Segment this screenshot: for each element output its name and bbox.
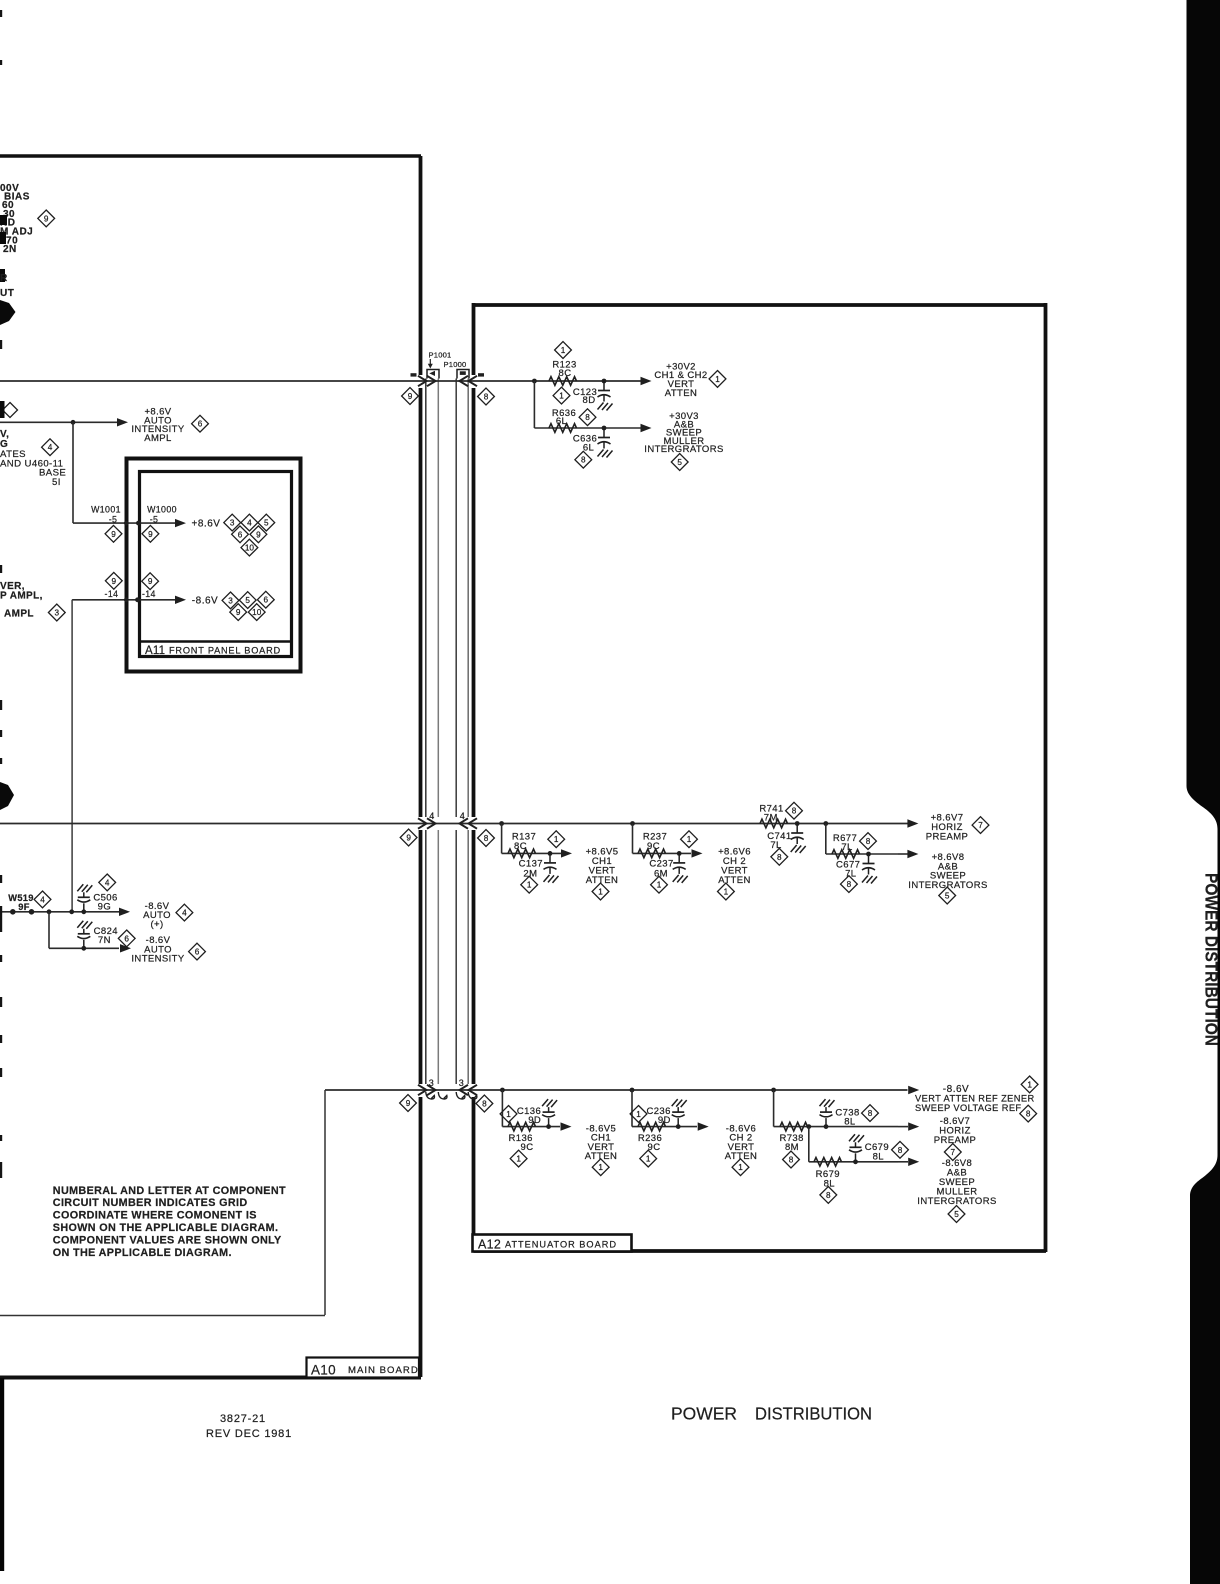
grid ref diamond 1 below C137	[521, 876, 538, 893]
svg-text:INTERGRATORS: INTERGRATORS	[644, 444, 723, 455]
capacitor C123 with ground	[603, 381, 605, 391]
grid ref diamond 9 below W1000	[142, 525, 159, 542]
grid ref diamond 1 below bottom CH1 vert atten	[592, 1159, 609, 1176]
grid ref diamond 8 right of R636 label	[579, 409, 596, 426]
arrow to -8.6V vert atten ref zener	[908, 1086, 919, 1094]
svg-text:1: 1	[687, 835, 692, 844]
svg-text:1: 1	[646, 1155, 651, 1164]
svg-text:8C: 8C	[514, 841, 527, 852]
svg-text:8: 8	[581, 456, 586, 465]
svg-text:1: 1	[506, 1110, 511, 1119]
svg-text:FRONT PANEL BOARD: FRONT PANEL BOARD	[169, 645, 281, 655]
svg-text:ATTEN: ATTEN	[665, 388, 697, 399]
junction W1001 at outer board edge	[124, 521, 129, 526]
grid ref diamond 8 right of R677	[860, 833, 877, 850]
wire branch to +8.6V6	[632, 824, 634, 854]
connector P1001 column lines	[425, 379, 427, 818]
junction C738 tap	[824, 1124, 829, 1129]
resistor R136	[508, 1122, 536, 1131]
grid ref diamond 1 below R136	[510, 1150, 527, 1167]
svg-text:4: 4	[40, 895, 45, 904]
resistor R237	[638, 849, 666, 858]
grid ref diamond 1 below bottom CH2 vert atten	[732, 1159, 749, 1176]
grid ref diamond 9 middle left	[400, 829, 417, 846]
svg-text:9: 9	[148, 530, 153, 539]
connector P1000 column lines	[455, 379, 457, 818]
capacitor C506 with ground above	[83, 903, 85, 912]
svg-text:1: 1	[1027, 1080, 1032, 1089]
grid ref diamond 8 below C636 label	[575, 451, 592, 468]
grid ref diamond 4 right of W519	[34, 891, 51, 908]
svg-text:8: 8	[585, 413, 590, 422]
resistor R677	[832, 850, 860, 859]
connector pins 4 at middle wire	[418, 818, 477, 828]
svg-text:9C: 9C	[521, 1142, 534, 1153]
svg-text:9C: 9C	[647, 841, 660, 852]
arrow to +8.6V front panel	[175, 519, 186, 527]
svg-text:1: 1	[559, 392, 564, 401]
A10 main board label box	[307, 1358, 420, 1378]
junction +8.6V5 branch	[499, 821, 504, 826]
svg-text:COORDINATE WHERE COMONENT IS: COORDINATE WHERE COMONENT IS	[53, 1210, 257, 1222]
grid ref diamond 1 below C237	[651, 876, 668, 893]
grid ref diamond 8 below R738	[783, 1151, 800, 1168]
grid ref diamond 6 right of auto intensity	[189, 943, 206, 960]
grid ref diamond 4 above C506	[99, 874, 116, 891]
connector keying marks top	[411, 373, 417, 376]
cut wire arrow blob left edge	[0, 300, 16, 325]
svg-text:SHOWN ON THE APPLICABLE DIAGRA: SHOWN ON THE APPLICABLE DIAGRAM.	[53, 1222, 279, 1234]
resistor R741 in main wire	[760, 819, 788, 828]
wire branch through R738	[773, 1090, 775, 1127]
A11 label separator line	[141, 640, 290, 642]
wire branch to -8.6V8	[808, 1127, 810, 1162]
svg-text:1: 1	[724, 887, 729, 896]
junction C824 tap	[81, 946, 86, 951]
grid ref diamond 9 bottom left	[400, 1095, 417, 1112]
svg-text:SWEEP VOLTAGE REF: SWEEP VOLTAGE REF	[915, 1103, 1022, 1113]
A10 main board outline right edge (with connector gaps)	[419, 156, 423, 375]
svg-text:1: 1	[738, 1163, 743, 1172]
junction C679 tap	[853, 1159, 858, 1164]
svg-text:8L: 8L	[844, 1117, 855, 1128]
A11 front panel board inner box	[140, 472, 292, 657]
arrow to -8.6V6 CH2 vert atten	[698, 1122, 709, 1130]
capacitor C636 with ground	[603, 428, 605, 438]
svg-text:6: 6	[264, 596, 269, 605]
junction R738 branch	[771, 1088, 776, 1093]
grid ref diamond 4 right of auto	[176, 904, 193, 921]
svg-text:ATTEN: ATTEN	[585, 1151, 617, 1162]
grid ref diamond 4 gates block	[42, 439, 59, 456]
svg-text:INTERGRATORS: INTERGRATORS	[908, 880, 987, 891]
svg-text:8: 8	[792, 807, 797, 816]
svg-text:MAIN BOARD: MAIN BOARD	[348, 1365, 419, 1376]
svg-text:9D: 9D	[658, 1115, 671, 1126]
svg-text:9: 9	[44, 214, 49, 223]
resistor R636	[549, 424, 577, 433]
svg-text:8: 8	[777, 853, 782, 862]
svg-text:8: 8	[847, 880, 852, 889]
grid ref diamond 9 top left	[402, 388, 419, 405]
wire branch to -8.6V5	[501, 1090, 503, 1127]
left edge blob near middle wire	[0, 782, 14, 810]
svg-text:7L: 7L	[841, 842, 852, 853]
svg-text:(+): (+)	[150, 919, 163, 930]
A12 attenuator board outline bottom edge	[474, 1249, 1047, 1253]
junction C136 tap	[546, 1124, 551, 1129]
grid ref diamond 1 above R123	[555, 342, 572, 359]
arrow to +8.6V auto intensity ampl	[117, 418, 128, 426]
svg-text:6: 6	[238, 530, 243, 539]
svg-text:1: 1	[561, 346, 566, 355]
arrow to +8.6V5 CH1 vert atten	[561, 849, 572, 857]
wire W1001/W1000 +8.6V into front panel board	[73, 522, 177, 524]
left edge bottom border bar	[0, 1378, 4, 1571]
junction C123 tap	[602, 379, 607, 384]
svg-text:-8.6V: -8.6V	[192, 595, 218, 606]
junction node top branch	[532, 379, 537, 384]
svg-text:8: 8	[826, 1191, 831, 1200]
grid ref diamond 6 right of C824	[118, 930, 135, 947]
junction dots on W519 wire	[10, 909, 16, 915]
wire -8.6V main distribution with note detour	[325, 1089, 908, 1091]
svg-text:1: 1	[657, 881, 662, 890]
svg-text:W1001: W1001	[91, 504, 121, 514]
svg-text:1: 1	[598, 1163, 603, 1172]
junction +8.6V6 branch	[630, 821, 635, 826]
grid ref diamond 8 right of C738	[862, 1105, 879, 1122]
svg-text:POWER: POWER	[671, 1404, 737, 1424]
svg-text:5: 5	[264, 519, 269, 528]
svg-text:6: 6	[195, 948, 200, 957]
svg-text:4: 4	[48, 443, 53, 452]
svg-text:ATTEN: ATTEN	[718, 875, 750, 886]
svg-text:5I: 5I	[52, 477, 61, 488]
grid ref diamond 8 right of sweep voltage ref	[1020, 1105, 1037, 1122]
svg-text:5: 5	[245, 596, 250, 605]
svg-text:4: 4	[460, 811, 465, 821]
capacitor C679 with ground above	[855, 1153, 857, 1162]
wire -14 -8.6V into front panel board	[72, 599, 177, 601]
svg-text:W1000: W1000	[147, 504, 177, 514]
svg-text:3: 3	[230, 519, 235, 528]
grid ref diamond 7 below bottom horiz preamp	[944, 1144, 961, 1161]
svg-text:CIRCUIT NUMBER INDICATES GRID: CIRCUIT NUMBER INDICATES GRID	[53, 1197, 248, 1209]
A12 attenuator board outline left edge (with connector gaps)	[472, 303, 476, 375]
svg-text:-5: -5	[109, 514, 118, 524]
svg-text:8: 8	[482, 1099, 487, 1108]
clipped grid diamond at left edge	[3, 403, 18, 418]
grid ref diamond 1 right of +30V2 text	[709, 371, 726, 388]
grid ref diamond 9 above -14 left	[105, 572, 122, 589]
svg-text:4: 4	[105, 878, 110, 887]
svg-text:5: 5	[677, 458, 682, 467]
grid ref diamond 7 right of horiz preamp	[972, 817, 989, 834]
grid ref diamond 8 top right	[478, 388, 495, 405]
svg-text:NUMBERAL AND LETTER AT COMPONE: NUMBERAL AND LETTER AT COMPONENT	[53, 1185, 286, 1197]
junction C137 tap	[548, 851, 553, 856]
grid ref diamond 8 below C677 label	[841, 876, 858, 893]
connector P1000 top bracket	[457, 370, 469, 379]
svg-text:9: 9	[408, 392, 413, 401]
svg-text:1: 1	[554, 835, 559, 844]
svg-text:7: 7	[978, 821, 983, 830]
A12 attenuator board outline top edge	[474, 303, 1047, 307]
svg-text:8: 8	[1026, 1110, 1031, 1119]
svg-text:PREAMP: PREAMP	[926, 832, 969, 843]
svg-text:ATTEN: ATTEN	[725, 1151, 757, 1162]
capacitor C137 with ground	[549, 853, 551, 863]
grid ref diamond 8 right of R741	[786, 802, 803, 819]
svg-text:1: 1	[715, 375, 720, 384]
svg-text:6: 6	[198, 420, 203, 429]
grid ref diamond 5 below +30V3 text	[671, 454, 688, 471]
grid ref diamond 1 below CH2 vert atten	[718, 883, 735, 900]
svg-text:9: 9	[112, 577, 117, 586]
svg-text:9F: 9F	[18, 902, 29, 912]
arrow to +30V2 CH1 CH2 VERT ATTEN	[641, 377, 652, 385]
grid ref diamond 8 middle right	[478, 830, 495, 847]
junction -14 at outer board edge	[124, 597, 129, 602]
svg-text:4: 4	[182, 909, 187, 918]
svg-text:3: 3	[55, 608, 60, 617]
left edge scan marks	[0, 10, 2, 17]
svg-text:9: 9	[111, 530, 116, 539]
grid ref diamond 1 left of C236	[630, 1106, 647, 1123]
svg-text:8C: 8C	[559, 368, 572, 379]
grid ref diamond 1 left of C136	[500, 1106, 517, 1123]
arrow to -8.6V front panel	[175, 596, 186, 604]
junction C236 tap	[676, 1124, 681, 1129]
svg-text:8: 8	[484, 392, 489, 401]
svg-text:DISTRIBUTION: DISTRIBUTION	[755, 1404, 872, 1424]
wire branch to +8.6V5	[501, 824, 503, 854]
junction C237 tap	[677, 851, 682, 856]
grid ref diamonds 3 4 5 6 9 10 for +8.6V	[224, 514, 241, 531]
svg-text:3: 3	[459, 1078, 464, 1088]
junction W1000 at inner board edge	[136, 521, 141, 526]
A12 attenuator board outline right edge	[1044, 303, 1048, 1252]
grid ref diamond 8 below C741 label	[771, 848, 788, 865]
arrow to +8.6V7 horiz preamp	[907, 819, 918, 827]
svg-text:1: 1	[527, 881, 532, 890]
svg-text:8: 8	[484, 834, 489, 843]
grid ref diamond 8 bottom right	[476, 1095, 493, 1112]
wire +30V from main board to attenuator board	[0, 380, 641, 382]
grid ref diamond 1 right of -8.6V ref	[1021, 1076, 1038, 1093]
wire +8.6V main distribution	[0, 823, 908, 825]
A10 main board outline top edge	[0, 154, 421, 158]
svg-text:4: 4	[247, 519, 252, 528]
grid ref diamond 9 above -14 right	[142, 573, 159, 590]
A11 front panel board outer box	[127, 459, 301, 672]
junction on +8.6V auto wire	[71, 420, 76, 425]
resistor R123	[549, 377, 577, 386]
junction R679 branch	[806, 1124, 811, 1129]
grid ref diamond 1 below R236	[640, 1150, 657, 1167]
grid ref diamond 9 in cut label block	[38, 210, 55, 227]
svg-text:5: 5	[945, 891, 950, 900]
svg-text:REV DEC 1981: REV DEC 1981	[206, 1428, 292, 1440]
svg-text:3827-21: 3827-21	[220, 1413, 266, 1425]
svg-text:9: 9	[256, 530, 261, 539]
svg-text:POWER DISTRIBUTION: POWER DISTRIBUTION	[1202, 873, 1220, 1046]
svg-text:9G: 9G	[98, 901, 111, 912]
svg-text:9D: 9D	[528, 1115, 541, 1126]
svg-text:4: 4	[429, 811, 434, 821]
svg-text:8: 8	[868, 1109, 873, 1118]
grid ref diamond 6 right of intensity ampl	[192, 415, 209, 432]
arrow to -8.6V auto	[119, 908, 130, 916]
junction -8.6V6 branch	[630, 1088, 635, 1093]
wire branch to -8.6V auto intensity	[48, 912, 50, 949]
svg-text:COMPONENT VALUES ARE SHOWN ONL: COMPONENT VALUES ARE SHOWN ONLY	[53, 1234, 282, 1246]
svg-text:ATTENUATOR BOARD: ATTENUATOR BOARD	[505, 1239, 617, 1249]
capacitor C741 with ground	[796, 824, 798, 834]
svg-text:1: 1	[636, 1110, 641, 1119]
A10 main board outline bottom edge	[0, 1376, 421, 1380]
grid ref diamonds 3 5 6 9 10 for -8.6V	[222, 592, 239, 609]
arrow to -8.6V8 sweep muller intergrators	[908, 1158, 919, 1166]
svg-text:-14: -14	[105, 589, 119, 599]
svg-text:5: 5	[954, 1210, 959, 1219]
junction -14 at inner board edge	[135, 597, 140, 602]
svg-text:P1000: P1000	[444, 360, 467, 369]
svg-text:7: 7	[951, 1148, 956, 1157]
grid ref diamond 5 below sweep intergrators	[939, 887, 956, 904]
arrow to -8.6V7 horiz preamp	[908, 1122, 919, 1130]
arrow to -8.6V5 CH1 vert atten	[561, 1122, 572, 1130]
svg-text:8: 8	[898, 1146, 903, 1155]
svg-text:INTENSITY: INTENSITY	[131, 954, 184, 965]
wire branch to +8.6V8	[825, 824, 827, 855]
resistor R137	[508, 849, 536, 858]
svg-text:AMPL: AMPL	[144, 433, 171, 444]
wire branch to -8.6V6	[631, 1090, 633, 1127]
svg-text:A12: A12	[478, 1238, 501, 1252]
svg-text:1: 1	[516, 1155, 521, 1164]
svg-text:A11: A11	[145, 645, 165, 657]
resistor R679	[814, 1158, 842, 1167]
svg-text:9: 9	[236, 608, 241, 617]
page edge black tab	[1187, 0, 1220, 1584]
arrow to +8.6V8 sweep integrators	[907, 850, 918, 858]
svg-text:R: R	[0, 273, 8, 284]
svg-text:10: 10	[252, 608, 262, 617]
svg-text:-5: -5	[150, 514, 159, 524]
svg-text:UT: UT	[0, 288, 14, 299]
svg-text:9: 9	[148, 577, 153, 586]
grid ref diamond 8 below R679	[820, 1187, 837, 1204]
svg-text:8: 8	[789, 1155, 794, 1164]
grid ref diamond 5 below bottom intergrators	[948, 1206, 965, 1223]
wire W519 -8.6V auto	[0, 911, 119, 913]
svg-text:8D: 8D	[583, 395, 596, 406]
capacitor C677 with ground	[868, 854, 870, 864]
svg-text:2N: 2N	[3, 244, 17, 255]
svg-text:9: 9	[406, 1099, 411, 1108]
svg-text:3: 3	[228, 596, 233, 605]
grid ref diamond 1 left of C123	[553, 387, 570, 404]
svg-text:1: 1	[598, 887, 603, 896]
capacitor C136 with ground above	[548, 1118, 550, 1127]
wire vertical -8.6V from -14 down to W519 wire	[71, 600, 73, 912]
svg-text:+8.6V: +8.6V	[192, 519, 221, 530]
svg-text:8: 8	[866, 837, 871, 846]
svg-text:A10: A10	[311, 1363, 336, 1378]
svg-text:7M: 7M	[764, 813, 778, 824]
capacitor C824 with ground above	[83, 940, 85, 949]
grid ref diamond 1 right of R137	[548, 831, 565, 848]
A12 attenuator board label box	[473, 1235, 632, 1252]
grid ref diamond 1 right of R237	[681, 831, 698, 848]
junction -8.6V5 branch	[500, 1088, 505, 1093]
wire branch down to R636	[533, 381, 535, 428]
junction C636 tap	[602, 426, 607, 431]
connector pins 3 at bottom wire	[418, 1085, 477, 1095]
svg-text:PREAMP: PREAMP	[934, 1135, 977, 1146]
capacitor C738 with ground above	[825, 1118, 827, 1127]
capacitor C236 with ground above	[677, 1118, 679, 1127]
svg-text:-14: -14	[142, 589, 156, 599]
junction +8.6V8 branch	[823, 821, 828, 826]
svg-text:P1001: P1001	[429, 351, 452, 360]
grid ref diamond 3 ampl block	[48, 604, 65, 621]
connector P1001 top bracket	[427, 370, 439, 379]
arrow to +8.6V6 CH2 vert atten	[692, 849, 703, 857]
connector label arrow	[429, 359, 431, 364]
svg-text:P AMPL,: P AMPL,	[0, 591, 43, 602]
svg-text:7N: 7N	[98, 935, 111, 946]
grid ref diamond 8 right of C679	[892, 1141, 909, 1158]
resistor R738	[780, 1122, 808, 1131]
svg-text:6L: 6L	[556, 416, 567, 427]
svg-text:AMPL: AMPL	[4, 608, 34, 619]
junction C741 tap	[795, 821, 800, 826]
connector bottom squiggle ends	[426, 1092, 477, 1099]
junction C677 tap	[866, 852, 871, 857]
svg-text:ON THE APPLICABLE DIAGRAM.: ON THE APPLICABLE DIAGRAM.	[53, 1247, 232, 1259]
grid ref diamond 1 below CH1 vert atten	[592, 883, 609, 900]
connector pins at top wire	[418, 376, 477, 386]
arrow to -8.6V auto intensity	[120, 944, 131, 952]
svg-text:10: 10	[245, 544, 255, 553]
svg-text:9: 9	[406, 833, 411, 842]
grid ref diamond 9 below W1001	[105, 525, 122, 542]
svg-text:6: 6	[124, 934, 129, 943]
svg-text:3: 3	[429, 1078, 434, 1088]
arrow to +30V3 sweep muller integrators	[641, 424, 652, 432]
svg-text:8L: 8L	[873, 1151, 884, 1162]
wire +8.6V auto intensity ampl	[0, 421, 117, 423]
resistor R236	[638, 1122, 666, 1131]
wire vertical +8.6V to W1001	[72, 422, 74, 523]
capacitor C237 with ground	[678, 853, 680, 863]
